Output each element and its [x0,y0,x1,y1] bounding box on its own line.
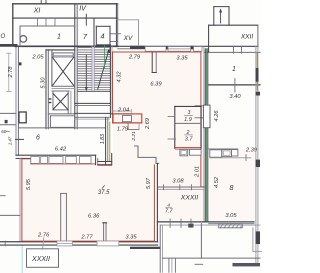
svg-text:1: 1 [232,66,236,73]
top exterior wall [118,45,258,47]
step in wall [95,155,97,165]
svg-text:2.05: 2.05 [31,54,44,60]
svg-text:2.78: 2.78 [8,66,14,79]
small line [195,263,203,265]
lower partition [103,223,105,242]
svg-text:O: O [0,34,5,40]
lower horizontal [162,257,260,259]
room 1 walls [20,25,75,27]
gray extension box [127,123,129,130]
svg-text:3.35: 3.35 [176,56,188,62]
svg-text:2.21: 2.21 [131,131,137,142]
green line [104,46,106,69]
corridor top line [75,112,110,114]
svg-text:6.39: 6.39 [150,81,162,87]
entry door box [19,112,26,123]
svg-text:6: 6 [36,134,40,141]
svg-text:37.5: 37.5 [98,190,110,196]
wall right of b room [105,118,107,165]
elevator left wall [45,50,47,129]
kitchen counter boxes [210,150,222,157]
small dark square [19,62,22,65]
door ticks [168,116,175,118]
room 37.5 right wall [153,165,155,242]
lobby wall below landing [75,102,111,104]
XXII room [209,24,258,26]
svg-text:7.7: 7.7 [165,208,174,214]
svg-text:1: 1 [57,34,61,41]
svg-text:3.7: 3.7 [185,137,194,143]
adjacent apartment lines [0,214,20,216]
adjacent room stub [195,105,203,107]
kitchen counter line [209,148,238,150]
vent box [48,113,75,115]
wall pier dark [130,46,145,49]
svg-text:3.08: 3.08 [172,178,184,184]
wall stub left [0,44,16,47]
bottom wall right part [157,221,208,223]
window 2 [168,47,191,52]
lower verticals [168,259,170,272]
wall stack olive [204,49,206,222]
circle O [20,36,27,43]
window boxes below wall [31,156,40,163]
svg-text:8: 8 [230,185,234,192]
wall stack purple [203,46,205,222]
corridor bottom line [18,127,105,129]
svg-text:XXXII: XXXII [31,256,50,263]
red boundary right [200,52,202,187]
elevator divider walls [52,85,75,87]
stair treads left flight [77,48,91,90]
lower corridor left wall [200,224,202,258]
red line below bathroom [113,122,142,124]
svg-text:3.35: 3.35 [125,234,137,240]
wall tick [4,241,6,246]
hall top wall [158,186,205,188]
elevator 1 shaft [51,51,53,87]
red bottom of WC block [176,147,202,149]
stair block outer top wall [13,3,118,5]
vanity boxes [180,149,188,155]
svg-text:1.79: 1.79 [117,127,129,133]
counter to wall line [210,157,251,159]
apartment top wall left [16,154,96,156]
svg-text:3.40: 3.40 [229,94,241,100]
svg-text:2.79: 2.79 [128,55,141,61]
svg-text:5.97: 5.97 [146,177,152,189]
svg-text:1.83: 1.83 [100,134,106,144]
radiator below wall [188,224,193,228]
svg-text:XXII: XXII [240,34,253,41]
door opening box in wall [203,105,210,128]
svg-text:4.52: 4.52 [214,176,220,188]
svg-text:1.47: 1.47 [8,136,13,145]
dark bottom bar [233,263,261,266]
block right wall top [115,4,117,47]
top notch ticks [40,1,42,4]
wall below XI [13,17,118,19]
svg-text:4.26: 4.26 [214,110,220,122]
stair block left outer wall [12,4,14,46]
door dash left wall [16,138,24,140]
lower corridor verticals [159,225,161,272]
svg-text:2.77: 2.77 [80,234,93,240]
svg-text:2.76: 2.76 [37,232,50,238]
red boundary corner vertical [112,52,114,123]
interior double wall [74,4,76,129]
dim line 2.04 [113,110,132,112]
pier [166,46,168,49]
door tick [234,79,236,92]
door tick IV-7 [85,14,87,25]
svg-text:5.30: 5.30 [41,77,47,89]
corridor wall double [75,116,110,118]
room 1 bottom wall [15,45,118,47]
room 1R top line [204,51,260,53]
window 3 [194,47,202,52]
svg-text:2.04: 2.04 [117,107,129,113]
landing line [77,91,110,93]
elevator door dashes [49,98,52,99]
svg-text:6.36: 6.36 [88,214,100,220]
svg-text:XV: XV [123,35,133,42]
XV box [117,19,139,21]
left wall double [15,46,17,155]
dim line 2.78 [8,53,10,91]
window 1 [145,47,166,52]
stair down arrow [85,55,87,89]
balcony hatch box [219,224,243,228]
lower right outline [252,228,254,252]
svg-text:2.69: 2.69 [145,118,151,130]
WC block right [174,106,176,148]
red boundary top [113,51,201,53]
XXXII box below [27,249,59,267]
roof protrusion box [213,7,215,26]
cyan line [21,245,23,272]
stair stringer [91,46,93,91]
svg-text:4: 4 [100,32,104,41]
elevator top line [46,49,75,51]
svg-text:3.05: 3.05 [225,213,237,219]
stair diagonal arrow [98,50,109,89]
stair treads right flight [94,48,110,90]
room8 bottom wall [209,221,254,223]
svg-text:6.42: 6.42 [55,147,67,153]
bathroom red box [113,114,142,123]
room 1R bottom wall [209,84,260,86]
svg-text:XXXII: XXXII [180,194,198,201]
bottom exterior wall [0,241,158,243]
room 4 [96,25,110,27]
bathroom center line [111,113,132,115]
door ticks below XXII [233,46,235,53]
svg-text:1.9: 1.9 [184,117,192,123]
svg-text:4.32: 4.32 [116,71,122,83]
mid partition [60,193,62,241]
bottom windows [57,241,72,246]
svg-text:5.95: 5.95 [26,178,32,190]
window ticks [37,18,39,26]
apartment left wall [19,158,21,241]
pier [191,46,194,50]
svg-text:XI: XI [33,8,41,15]
right exterior wall [255,46,257,263]
dark step [130,247,160,249]
wall between 7 and 4 [93,18,95,46]
partition 2.79/3.35 [151,52,153,72]
vestibule lines [0,112,16,114]
niche lines [111,33,121,35]
up arrow [220,11,222,23]
leader line [43,238,44,250]
stair right wall [109,45,111,117]
elevator 2 shaft [52,92,54,110]
Z partition [135,146,159,163]
svg-text:2.01: 2.01 [195,166,201,178]
